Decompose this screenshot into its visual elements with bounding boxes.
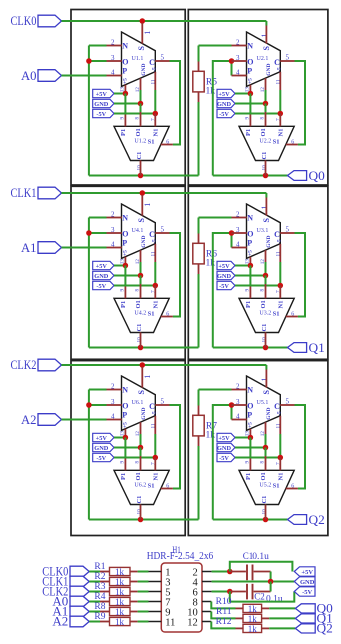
U3.1 pin 11: [279, 244, 281, 262]
svg-text:C: C: [149, 58, 155, 67]
U3.2 pin 8: [265, 284, 267, 298]
power port GND: [217, 99, 235, 107]
resistor R12: [236, 627, 244, 629]
U6.1 pin 13: [124, 429, 126, 438]
wire +5V down to U5.2 pin 9: [249, 438, 251, 459]
U5.2 pin 8: [265, 456, 267, 470]
wire R5 to N input: [199, 45, 232, 47]
U1.2 pin 6: [161, 144, 173, 146]
svg-text:S: S: [262, 218, 271, 223]
U4.2 pin 10: [140, 332, 142, 347]
U6.1 pin 1: [141, 367, 143, 388]
power port GND: [93, 443, 114, 451]
wire bottom feedback: [89, 347, 199, 349]
U6.2 pin 6: [161, 488, 173, 490]
svg-text:Q2: Q2: [309, 513, 325, 527]
svg-text:GND: GND: [217, 273, 231, 280]
svg-text:+5V: +5V: [301, 569, 313, 576]
U4.1 pin 13: [124, 257, 126, 266]
U3.1 pin 3: [232, 232, 247, 234]
svg-text:GND: GND: [141, 64, 147, 76]
U6.1 pin 4: [107, 419, 122, 421]
port Q2 (bottom): [295, 624, 315, 633]
svg-text:-5: -5: [277, 67, 283, 72]
wire GND down to U2.2 pin 8: [265, 104, 267, 113]
wire U1.1 N/O feedback vertical: [88, 46, 90, 176]
svg-text:9: 9: [244, 461, 250, 464]
op-amp U1.1 body: [122, 32, 156, 86]
resistor R6: [198, 234, 200, 244]
U1.1 pin 13: [124, 85, 126, 94]
svg-text:GND: GND: [266, 408, 272, 420]
op-amp U3.1 body: [247, 204, 281, 258]
svg-text:P1: P1: [120, 129, 127, 136]
svg-text:CLK1: CLK1: [11, 185, 37, 200]
wire +5V down to U6.2 pin 9: [124, 438, 126, 459]
svg-text:R8: R8: [94, 602, 105, 612]
wire -5V: [114, 113, 155, 115]
svg-text:-5V: -5V: [96, 283, 106, 290]
H1 pin 7: [149, 601, 162, 603]
svg-text:S: S: [137, 218, 146, 223]
wire A0 to R4: [89, 601, 100, 603]
junction U6.1 pin 3: [86, 402, 92, 408]
svg-text:C: C: [274, 402, 280, 411]
junction +5V right: [248, 91, 254, 97]
op-amp U5.2 body: [239, 470, 294, 504]
U1.1 pin 5: [155, 60, 169, 62]
wire U4.1 C to U4.2 S1: [170, 233, 181, 317]
svg-text:S: S: [262, 390, 271, 395]
U5.2 pin 7: [279, 458, 281, 471]
svg-text:U6.2: U6.2: [134, 482, 146, 488]
port Q1: [288, 343, 307, 353]
svg-text:GND: GND: [300, 579, 315, 586]
power port +5V: [93, 433, 114, 441]
port Q0 (bottom): [295, 604, 315, 613]
power port -5V: [217, 109, 235, 117]
svg-text:R11: R11: [216, 607, 232, 617]
wire GND: [212, 581, 295, 583]
wire GND: [235, 275, 266, 277]
svg-text:-5V: -5V: [96, 111, 106, 118]
svg-text:HDR-F-2.54_2x6: HDR-F-2.54_2x6: [147, 551, 214, 562]
svg-text:R12: R12: [216, 617, 232, 627]
svg-text:N1: N1: [152, 473, 159, 481]
svg-text:N: N: [247, 214, 253, 223]
svg-text:P: P: [247, 239, 252, 248]
svg-text:GND: GND: [217, 101, 231, 108]
svg-text:N: N: [122, 214, 128, 223]
wire U1.1 O branch: [89, 60, 107, 62]
wire R3 to header pin 5: [138, 591, 149, 593]
capacitor C1: [230, 571, 246, 573]
svg-text:C1: C1: [136, 324, 143, 332]
svg-text:9: 9: [244, 289, 250, 292]
U1.2 pin 8: [140, 112, 142, 126]
wire CLK2 to R3: [89, 591, 100, 593]
wire U6.1 N/O feedback vertical: [88, 390, 90, 520]
wire R5 bottom net: [198, 102, 200, 176]
wire U4.1 N branch: [89, 217, 107, 219]
junction +5V: [123, 435, 128, 441]
op-amp U6.1 body: [122, 376, 156, 430]
U1.1 pin 11: [154, 72, 156, 90]
wire C1 to GND: [270, 572, 272, 582]
svg-text:R2: R2: [94, 572, 105, 582]
junction U3.1 pin 3: [229, 230, 235, 236]
U1.2 pin 9: [124, 115, 126, 127]
U4.1 pin 1: [141, 195, 143, 216]
wire R9 to header pin 11: [138, 621, 149, 623]
svg-text:GND: GND: [94, 273, 108, 280]
op-amp U1.2 body: [114, 126, 169, 160]
svg-text:U3.1: U3.1: [257, 228, 269, 234]
svg-text:R1: R1: [94, 562, 105, 572]
wire R6 to N input: [199, 217, 232, 219]
wire +5V: [114, 265, 125, 267]
U4.1 pin 4: [107, 247, 122, 249]
wire pin11 to -5V: [279, 262, 281, 286]
power port +5V: [93, 89, 114, 97]
svg-text:R4: R4: [94, 592, 105, 602]
wire +5V detour rail: [230, 562, 293, 572]
power port GND (bottom): [294, 577, 315, 586]
U4.2 pin 7: [154, 286, 156, 299]
U3.1 pin 2: [232, 217, 247, 219]
U5.1 pin 13: [249, 429, 251, 438]
op-amp U2.1 body: [247, 32, 281, 86]
port CLK2 (bottom): [70, 586, 89, 597]
svg-text:U1.2: U1.2: [134, 138, 146, 144]
U1.2 pin 7: [154, 114, 156, 127]
wire R6 bottom net: [198, 274, 200, 348]
U2.2 pin 7: [279, 114, 281, 127]
U3.2 pin 6: [286, 316, 298, 318]
U5.1 pin 11: [279, 416, 281, 434]
wire R2 to header pin 3: [138, 581, 149, 583]
svg-text:N: N: [247, 42, 253, 51]
svg-text:+5: +5: [122, 78, 128, 84]
U4.1 pin 5: [155, 232, 169, 234]
svg-text:GND: GND: [266, 64, 272, 76]
U1.1 pin 4: [107, 75, 122, 77]
svg-text:O1: O1: [260, 128, 267, 136]
port A1 (bottom): [70, 606, 89, 617]
junction CLK0 / U1.1 pin 1: [140, 18, 146, 24]
svg-text:Q0: Q0: [309, 169, 325, 183]
U2.1 pin 4: [232, 75, 247, 77]
resistor R8: [100, 611, 110, 613]
U2.1 pin 2: [232, 45, 247, 47]
svg-text:O1: O1: [135, 300, 142, 308]
wire -5V: [212, 591, 230, 593]
svg-text:N1: N1: [277, 129, 284, 137]
H1 pin 8: [202, 601, 211, 603]
op-amp U4.1 body: [122, 204, 156, 258]
svg-text:S1: S1: [148, 483, 155, 490]
svg-text:-5: -5: [152, 411, 158, 416]
wire R5 top net: [198, 46, 200, 62]
sheet border row3 col1: [71, 361, 185, 536]
svg-text:1k: 1k: [248, 604, 258, 614]
wire R10 to Q0: [269, 607, 295, 609]
wire U6.1 N branch: [89, 389, 107, 391]
wire R4 to header pin 7: [138, 601, 149, 603]
svg-text:O1: O1: [260, 472, 267, 480]
svg-text:U5.2: U5.2: [259, 482, 271, 488]
wire GND: [114, 275, 141, 277]
svg-text:+5V: +5V: [96, 263, 108, 270]
H1 pin 10: [202, 611, 211, 613]
svg-text:U3.2: U3.2: [259, 310, 271, 316]
svg-text:A2: A2: [52, 614, 68, 629]
U5.1 pin 2: [232, 389, 247, 391]
U2.1 pin 5: [280, 60, 294, 62]
wire A0 net: [62, 75, 107, 77]
wire pin12 to GND: [265, 262, 267, 276]
wire CLK0 net: [62, 20, 267, 22]
wire pin11 to -5V: [279, 434, 281, 458]
junction -5V / C2: [227, 589, 233, 595]
svg-text:GND: GND: [141, 408, 147, 420]
U6.2 pin 9: [124, 459, 126, 471]
svg-text:N: N: [247, 386, 253, 395]
junction GND right: [263, 273, 269, 279]
svg-text:S1: S1: [148, 311, 155, 318]
svg-text:GND: GND: [266, 236, 272, 248]
wire R6 top net: [198, 218, 200, 234]
junction GND right: [263, 101, 269, 107]
svg-text:GND: GND: [94, 101, 108, 108]
resistor R5: [198, 62, 200, 72]
wire GND down to U3.2 pin 8: [265, 276, 267, 285]
U4.1 pin 3: [107, 232, 122, 234]
wire -5V: [114, 457, 155, 459]
svg-text:O1: O1: [260, 300, 267, 308]
wire R7 top net: [198, 390, 200, 406]
svg-text:N: N: [122, 386, 128, 395]
svg-text:A1: A1: [21, 240, 37, 255]
svg-text:C: C: [149, 230, 155, 239]
power port +5V: [217, 261, 235, 269]
wire bottom feedback: [89, 175, 199, 177]
svg-text:O: O: [122, 402, 128, 411]
header H1 body: [161, 563, 202, 632]
wire +5V down to U3.2 pin 9: [249, 266, 251, 287]
svg-text:P: P: [122, 411, 127, 420]
junction -5V right: [278, 283, 284, 289]
svg-text:P: P: [122, 67, 127, 76]
wire +5V down to U4.2 pin 9: [124, 266, 126, 287]
U5.2 pin 10: [265, 504, 267, 519]
port CLK0 (bottom): [70, 566, 89, 577]
svg-text:U4.1: U4.1: [132, 228, 144, 234]
svg-text:GND: GND: [141, 236, 147, 248]
wire +5V: [235, 265, 250, 267]
port A0: [38, 70, 62, 82]
svg-text:S1: S1: [148, 139, 155, 146]
wire GND down to U6.2 pin 8: [140, 448, 142, 457]
sheet border row2 col1: [71, 186, 185, 359]
wire +5V: [114, 437, 125, 439]
U6.1 pin 11: [154, 416, 156, 434]
svg-text:A0: A0: [21, 68, 37, 83]
op-amp U2.2 body: [239, 126, 294, 160]
wire U5.1 C to U5.2 S1: [295, 405, 306, 489]
junction -5V right: [278, 455, 284, 461]
U2.2 pin 10: [265, 160, 267, 175]
svg-text:R9: R9: [94, 612, 105, 622]
power port +5V: [93, 261, 114, 269]
svg-text:-5V: -5V: [219, 111, 229, 118]
junction +5V / C1: [227, 569, 233, 575]
svg-text:1: 1: [260, 206, 269, 210]
svg-text:10: 10: [136, 509, 142, 515]
wire U1.1 C to U1.2 S1: [170, 61, 181, 145]
U6.2 pin 10: [140, 504, 142, 519]
wire GND down to U4.2 pin 8: [140, 276, 142, 285]
junction +5V: [123, 263, 128, 269]
port Q0: [288, 171, 307, 181]
op-amp U3.2 body: [239, 298, 294, 332]
wire +5V: [114, 93, 125, 95]
resistor R1: [100, 571, 110, 573]
svg-text:N1: N1: [277, 301, 284, 309]
svg-text:P1: P1: [245, 301, 252, 308]
svg-text:-5: -5: [277, 411, 283, 416]
wire pin 12 jog: [211, 622, 235, 629]
U4.1 pin 11: [154, 244, 156, 262]
wire U6.1 C to U6.2 S1: [170, 405, 181, 489]
wire R8 to header pin 9: [138, 611, 149, 613]
wire clk drop to U5.1 pin 1: [265, 365, 267, 370]
svg-text:C1: C1: [136, 152, 143, 160]
U4.2 pin 6: [161, 316, 173, 318]
svg-text:0.1u: 0.1u: [252, 552, 269, 562]
svg-text:R10: R10: [216, 597, 232, 607]
junction U1.1 pin 3: [86, 58, 92, 64]
svg-text:S: S: [137, 46, 146, 51]
U1.2 pin 10: [140, 160, 142, 175]
junction -5V right: [278, 111, 284, 117]
wire bottom feedback: [89, 519, 199, 521]
junction U6.2 pin 10: [138, 517, 144, 523]
port CLK1: [38, 187, 62, 199]
svg-text:9: 9: [119, 289, 125, 292]
power port +5V: [217, 433, 235, 441]
junction GND right: [263, 445, 269, 451]
svg-text:1: 1: [260, 378, 269, 382]
wire +5V down to U1.2 pin 9: [124, 94, 126, 115]
power port +5V: [217, 89, 235, 97]
svg-text:S1: S1: [273, 483, 280, 490]
power port GND: [93, 99, 114, 107]
U2.1 pin 12: [265, 78, 267, 90]
junction U5.2 pin 10: [263, 517, 269, 523]
wire U3.1 C to U3.2 S1: [295, 233, 306, 317]
svg-text:-5: -5: [152, 239, 158, 244]
svg-text:1k: 1k: [115, 577, 125, 587]
wire pin 8 jog: [211, 602, 235, 609]
junction CLK2 / U6.1 pin 1: [140, 362, 146, 368]
wire GND: [114, 447, 141, 449]
svg-text:Q2: Q2: [317, 621, 333, 635]
svg-text:U6.1: U6.1: [132, 400, 144, 406]
wire pin12 to GND: [140, 262, 142, 276]
wire +5V: [235, 437, 250, 439]
svg-text:+5V: +5V: [96, 435, 108, 442]
svg-text:1: 1: [143, 31, 152, 35]
svg-text:O: O: [247, 402, 253, 411]
port A0 (bottom): [70, 596, 89, 607]
svg-text:P: P: [247, 411, 252, 420]
svg-text:S: S: [137, 390, 146, 395]
wire pin12 to GND: [265, 90, 267, 104]
op-amp U5.1 body: [247, 376, 281, 430]
svg-text:N1: N1: [152, 301, 159, 309]
wire U4.1 N/O feedback vertical: [88, 218, 90, 348]
wire pin 10 jog: [211, 612, 235, 619]
port A2 (bottom): [70, 616, 89, 627]
U2.2 pin 6: [286, 144, 298, 146]
power port -5V: [217, 453, 235, 461]
power port -5V: [93, 453, 114, 461]
wire C2 to GND: [270, 582, 272, 592]
svg-text:10: 10: [136, 337, 142, 343]
U3.1 pin 1: [265, 198, 267, 216]
svg-text:-5: -5: [277, 239, 283, 244]
junction +5V right: [248, 435, 254, 441]
wire CLK0 to R1: [89, 571, 100, 573]
svg-text:S1: S1: [273, 139, 280, 146]
wire R7 bottom net: [198, 446, 200, 520]
port Q1 (bottom): [295, 614, 315, 623]
H1 pin 9: [149, 611, 162, 613]
svg-text:+5: +5: [247, 78, 253, 84]
sheet border row2 col2: [188, 186, 328, 359]
port A2: [38, 414, 62, 426]
wire U6.1 O branch: [89, 404, 107, 406]
wire bottom feedback right: [213, 347, 288, 349]
svg-text:11: 11: [165, 617, 175, 628]
resistor R2: [100, 581, 110, 583]
svg-text:U5.1: U5.1: [257, 400, 269, 406]
svg-text:+5V: +5V: [218, 435, 230, 442]
junction GND: [138, 445, 144, 451]
svg-text:-5V: -5V: [302, 589, 312, 596]
U6.1 pin 3: [107, 404, 122, 406]
wire GND: [235, 447, 266, 449]
wire R11 to Q1: [269, 617, 295, 619]
svg-text:1: 1: [143, 203, 152, 207]
svg-text:C2: C2: [254, 592, 265, 602]
junction GND: [138, 101, 144, 107]
svg-text:-5V: -5V: [96, 455, 106, 462]
U3.1 pin 12: [265, 250, 267, 262]
U4.2 pin 9: [124, 287, 126, 299]
junction GND / C1 / C2: [268, 579, 274, 585]
svg-text:S: S: [262, 46, 271, 51]
power port +5V (bottom): [294, 567, 315, 576]
resistor R3: [100, 591, 110, 593]
U2.1 pin 11: [279, 72, 281, 90]
wire -5V: [235, 113, 280, 115]
resistor R9: [100, 621, 110, 623]
wire R12 to Q2: [269, 627, 295, 629]
U5.2 pin 9: [249, 459, 251, 471]
U3.2 pin 9: [249, 287, 251, 299]
